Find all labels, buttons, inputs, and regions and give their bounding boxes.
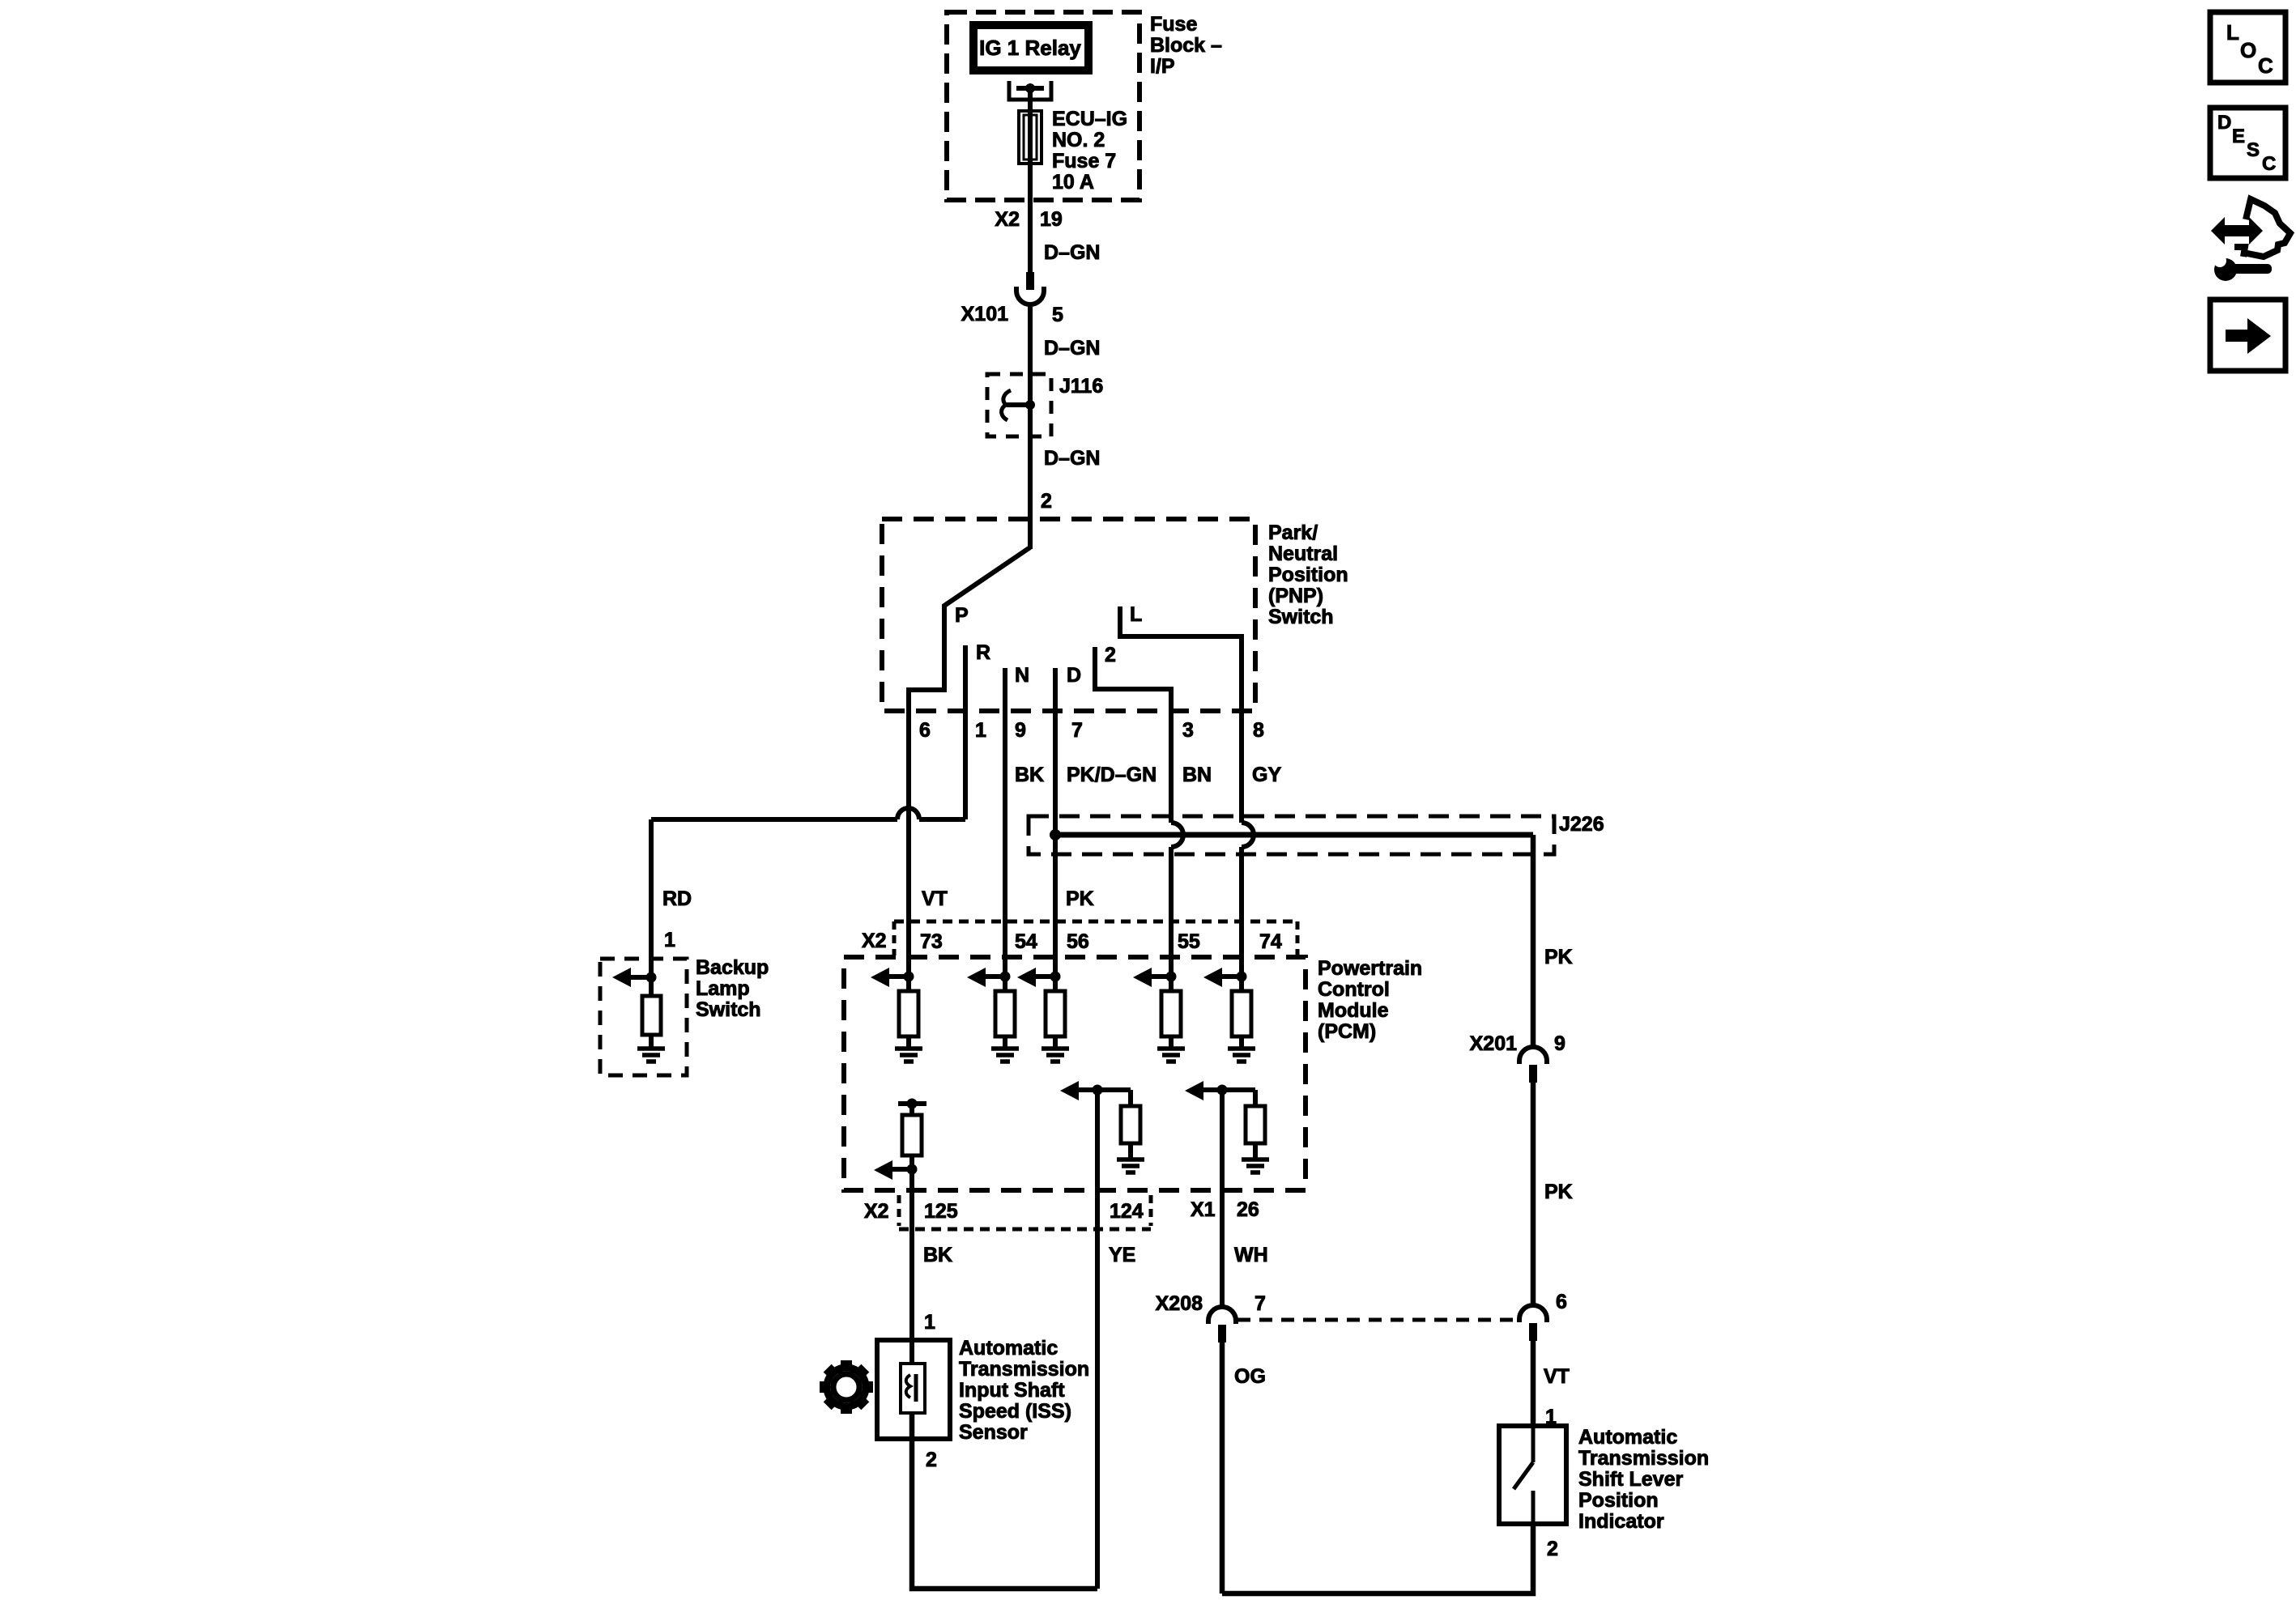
svg-text:2: 2 — [1105, 644, 1116, 666]
dashed connector tie line X208 to X201 — [1237, 1318, 1518, 1322]
ground on 26 branch — [1242, 1157, 1269, 1162]
ground in backup lamp switch — [637, 1046, 665, 1051]
PCM input pin node at x=1241 — [1000, 972, 1011, 982]
wire 124 down — [1095, 1090, 1100, 1589]
svg-text:D–GN: D–GN — [1044, 337, 1100, 360]
svg-text:Switch: Switch — [696, 998, 761, 1021]
PCM input pin node at x=1122 — [904, 972, 914, 982]
wire VT to shift lever indicator — [1531, 1341, 1536, 1462]
svg-text:N: N — [1015, 664, 1029, 687]
svg-text:Park/: Park/ — [1268, 521, 1318, 544]
wire pin3 BN down to PCM 55 with hop at J226 — [1169, 717, 1174, 823]
wire pin1 RD to backup lamp switch — [963, 717, 968, 819]
contact L wire to pin 8 — [1120, 606, 1242, 717]
wire pin6 VT down to PCM 73 — [906, 717, 911, 977]
svg-text:8: 8 — [1253, 719, 1264, 742]
splice J116 dashed box — [987, 374, 1051, 436]
wire fuse to X2-19 connector — [1028, 165, 1033, 272]
PCM pin 26 branch: node, arrow, resistor, ground — [1217, 1085, 1228, 1096]
PCM input pin node at x=1533 — [1237, 972, 1247, 982]
switch contact inside indicator — [1514, 1462, 1533, 1489]
wire OG down from X208 — [1220, 1343, 1225, 1594]
svg-text:PK: PK — [1544, 1181, 1573, 1203]
svg-text:Automatic: Automatic — [1578, 1426, 1677, 1449]
resistor on 124 branch — [1121, 1106, 1140, 1143]
svg-text:X2: X2 — [995, 208, 1020, 231]
PCM pin 125 branch: terminator, resistor, node, arrow — [898, 1101, 926, 1106]
svg-text:Position: Position — [1578, 1489, 1659, 1512]
PCM input pin node at x=1446 — [1166, 972, 1177, 982]
backup lamp switch dashed box — [600, 959, 687, 1075]
ground (PCM internal) — [1042, 1046, 1069, 1051]
svg-text:(PCM): (PCM) — [1318, 1020, 1376, 1043]
wire 26 WH down to X208 — [1220, 1090, 1225, 1307]
svg-text:Switch: Switch — [1268, 606, 1334, 628]
svg-text:BN: BN — [1182, 764, 1212, 786]
svg-text:2: 2 — [1547, 1538, 1558, 1560]
PNP switch dashed box — [882, 519, 1255, 711]
ground (PCM internal) — [1157, 1046, 1185, 1051]
node on 125 wire — [907, 1164, 918, 1175]
svg-text:Neutral: Neutral — [1268, 543, 1338, 565]
svg-text:2: 2 — [1041, 490, 1052, 513]
svg-text:Transmission: Transmission — [1578, 1447, 1709, 1470]
svg-text:124: 124 — [1110, 1200, 1144, 1223]
gear icon — [820, 1360, 873, 1414]
ground (PCM internal) — [895, 1046, 922, 1051]
svg-text:1: 1 — [664, 929, 675, 951]
resistor (PCM internal) — [1046, 991, 1065, 1036]
svg-text:YE: YE — [1109, 1244, 1135, 1266]
svg-text:L: L — [1130, 603, 1142, 626]
svg-text:C: C — [2262, 153, 2276, 175]
svg-text:Backup: Backup — [696, 956, 769, 979]
svg-text:125: 125 — [924, 1200, 958, 1223]
arrow to chassis — [631, 975, 651, 980]
svg-text:2: 2 — [926, 1449, 937, 1471]
svg-text:X2: X2 — [864, 1200, 889, 1223]
fuse block I/P dashed box — [947, 12, 1139, 200]
svg-text:54: 54 — [1015, 930, 1037, 953]
svg-text:NO. 2: NO. 2 — [1052, 129, 1105, 151]
svg-text:(PNP): (PNP) — [1268, 585, 1323, 607]
svg-text:J116: J116 — [1059, 375, 1103, 398]
svg-text:10 A: 10 A — [1052, 171, 1094, 194]
relay K: IG 1 Relay box — [973, 25, 1088, 70]
wire PK to X201-6 — [1531, 1083, 1536, 1306]
wire D-GN to J116 — [1028, 304, 1033, 549]
svg-text:L: L — [2226, 20, 2239, 45]
ground on 124 branch — [1117, 1157, 1144, 1162]
wire pin8 GY down to PCM 74 with hop at J226 — [1239, 717, 1244, 823]
ground (PCM internal) — [1228, 1046, 1255, 1051]
wire hop over pin6 wire — [897, 808, 919, 819]
sensor element inside ISS — [901, 1364, 925, 1413]
svg-text:74: 74 — [1259, 930, 1282, 953]
svg-text:1: 1 — [924, 1311, 935, 1334]
svg-text:7: 7 — [1254, 1292, 1266, 1315]
svg-text:9: 9 — [1015, 719, 1026, 742]
svg-text:19: 19 — [1040, 208, 1063, 231]
wire indicator pin2 to OG loop — [1222, 1524, 1533, 1594]
resistor (PCM internal) — [995, 991, 1015, 1036]
svg-text:D: D — [2217, 112, 2231, 134]
svg-text:56: 56 — [1067, 930, 1089, 953]
PCM input pin node at x=1303 — [1050, 972, 1061, 982]
node: junction on PK/D-GN wire — [1050, 829, 1061, 840]
next-page arrow icon box — [2210, 300, 2285, 371]
svg-text:X201: X201 — [1470, 1032, 1517, 1055]
svg-text:7: 7 — [1071, 719, 1083, 742]
splice J226 dashed box — [1029, 816, 1554, 854]
PCM dashed box — [844, 957, 1306, 1190]
svg-text:WH: WH — [1234, 1244, 1268, 1266]
PCM connector X2 dotted strip (bottom) — [897, 1195, 901, 1226]
svg-text:Block –: Block – — [1150, 34, 1222, 57]
svg-text:Transmission: Transmission — [959, 1358, 1089, 1381]
svg-text:Control: Control — [1318, 978, 1390, 1001]
troubleshooting hand + wrench icon — [2211, 199, 2290, 281]
svg-text:PK: PK — [1544, 946, 1573, 968]
svg-text:Shift Lever: Shift Lever — [1578, 1468, 1683, 1491]
svg-text:55: 55 — [1178, 930, 1200, 953]
contact 2 wire to pin 3 — [1095, 647, 1171, 717]
wire ISS pin2 loop to YE — [912, 1413, 1097, 1589]
contact R wire — [963, 645, 968, 717]
wire relay to fuse — [1028, 88, 1033, 111]
svg-text:O: O — [2240, 38, 2256, 62]
svg-text:X2: X2 — [862, 930, 887, 952]
svg-text:Sensor: Sensor — [959, 1421, 1028, 1444]
svg-text:3: 3 — [1182, 719, 1194, 742]
svg-text:X1: X1 — [1191, 1198, 1216, 1221]
contact N wire — [1003, 668, 1007, 717]
svg-text:C: C — [2258, 53, 2273, 78]
svg-text:PK: PK — [1066, 887, 1094, 910]
svg-text:1: 1 — [975, 719, 986, 742]
svg-text:X208: X208 — [1156, 1292, 1203, 1315]
svg-text:BK: BK — [923, 1244, 952, 1266]
svg-text:BK: BK — [1015, 764, 1044, 786]
svg-text:Module: Module — [1318, 999, 1389, 1022]
svg-text:IG 1 Relay: IG 1 Relay — [979, 36, 1081, 60]
svg-text:D: D — [1067, 664, 1081, 687]
svg-text:26: 26 — [1237, 1198, 1259, 1221]
svg-text:OG: OG — [1234, 1365, 1266, 1388]
DESC icon box — [2210, 108, 2285, 178]
fuse F7: ECU-IG NO. 2 Fuse 7 10 A — [1019, 111, 1042, 164]
svg-text:P: P — [955, 604, 969, 627]
svg-text:GY: GY — [1252, 764, 1281, 786]
node: junction in backup lamp switch — [646, 972, 657, 983]
PCM pin 124 branch: node, arrow, resistor, ground — [1093, 1085, 1103, 1096]
svg-text:D–GN: D–GN — [1044, 241, 1100, 264]
automatic transmission shift lever position indicator box — [1499, 1426, 1566, 1524]
svg-text:Input Shaft: Input Shaft — [959, 1379, 1065, 1402]
svg-text:VT: VT — [1544, 1365, 1570, 1388]
splice J116 symbol — [1025, 400, 1035, 410]
svg-text:Lamp: Lamp — [696, 977, 750, 1000]
svg-text:E: E — [2232, 126, 2245, 147]
PCM connector X2 dotted strip (top) — [894, 920, 1297, 924]
wire P contact to pin 6 — [909, 547, 1030, 717]
svg-text:VT: VT — [922, 887, 948, 910]
svg-text:Indicator: Indicator — [1578, 1510, 1664, 1533]
svg-text:6: 6 — [919, 719, 931, 742]
wire J226 branch to X201 — [1055, 832, 1533, 838]
connector X101 pin 5 — [1026, 272, 1034, 290]
resistor (PCM internal) — [1232, 991, 1251, 1036]
svg-text:9: 9 — [1554, 1032, 1565, 1055]
svg-text:73: 73 — [920, 930, 943, 953]
svg-text:6: 6 — [1556, 1291, 1567, 1313]
wire pin7 PK/D-GN down to PCM 56 — [1053, 717, 1058, 977]
automatic transmission ISS sensor box — [877, 1340, 950, 1439]
svg-text:I/P: I/P — [1150, 55, 1175, 78]
svg-text:D–GN: D–GN — [1044, 447, 1100, 470]
svg-text:S: S — [2247, 139, 2260, 161]
wire pin9 BK down to PCM 54 — [1003, 717, 1007, 977]
svg-text:J226: J226 — [1559, 813, 1604, 836]
resistor element of backup lamp switch — [642, 996, 661, 1035]
resistor on 125 branch — [902, 1115, 922, 1155]
relay terminal bracket — [1009, 81, 1051, 100]
svg-text:Speed (ISS): Speed (ISS) — [959, 1400, 1071, 1423]
svg-text:Fuse 7: Fuse 7 — [1052, 150, 1116, 172]
resistor (PCM internal) — [1161, 991, 1181, 1036]
contact D wire — [1053, 668, 1058, 717]
svg-text:R: R — [976, 641, 990, 664]
svg-text:Automatic: Automatic — [959, 1337, 1058, 1360]
svg-text:RD: RD — [662, 887, 692, 910]
resistor on 26 branch — [1246, 1106, 1265, 1143]
svg-text:ECU–IG: ECU–IG — [1052, 108, 1127, 130]
resistor (PCM internal) — [899, 991, 918, 1036]
svg-text:5: 5 — [1052, 304, 1063, 326]
svg-text:Fuse: Fuse — [1150, 13, 1197, 36]
LOC icon box — [2210, 12, 2285, 83]
svg-text:PK/D–GN: PK/D–GN — [1067, 764, 1157, 786]
svg-text:X101: X101 — [961, 303, 1008, 326]
svg-text:Powertrain: Powertrain — [1318, 957, 1422, 980]
ground (PCM internal) — [991, 1046, 1019, 1051]
svg-text:Position: Position — [1268, 564, 1348, 586]
